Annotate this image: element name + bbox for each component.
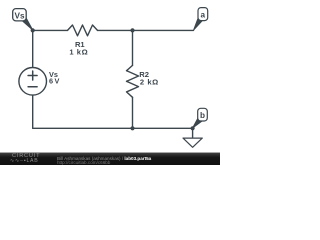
footer watermark bar [0,152,220,165]
wire top-left junction to R1 [33,29,68,31]
svg-text:6 V: 6 V [49,77,59,86]
resistor R2 [127,65,139,97]
wire ground stub [192,128,194,138]
node flag Vs [13,9,33,30]
svg-text:2 kΩ: 2 kΩ [140,77,159,86]
junction dot R2 bottom [130,126,134,130]
wire source top lead [32,30,34,67]
wire bottom [33,127,193,129]
svg-text:a: a [201,11,206,20]
wire R2 top lead [132,30,134,65]
wire R2 bottom lead [132,97,134,128]
junction dot ground node [191,126,195,130]
label Vs value [49,70,59,85]
wire source bottom lead [32,95,34,128]
footer credit text [57,156,151,161]
junction dot node Vs [31,28,35,32]
junction dot R2 top [130,28,134,32]
voltage source Vs [19,68,47,96]
resistor R1 [68,25,98,36]
node flag b [193,108,208,128]
svg-text:b: b [200,111,205,120]
CircuitLab logo [12,153,40,159]
wire R1 to node a [98,29,194,31]
node flag a [194,8,208,30]
svg-text:1 kΩ: 1 kΩ [69,47,88,56]
label R1 value [69,40,88,57]
svg-text:Vs: Vs [14,11,24,20]
ground [183,138,202,147]
label R2 value [139,70,158,86]
